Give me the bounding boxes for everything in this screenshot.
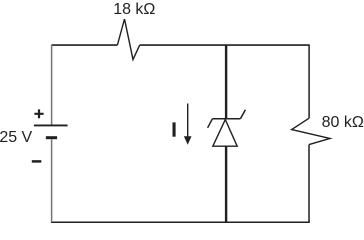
battery V1 positive plate (34, 124, 68, 126)
resistor R2 zigzag (292, 118, 330, 144)
wire bottom (51, 221, 310, 223)
wire top-right segment (140, 44, 309, 46)
zener right wing (240, 110, 245, 119)
minus sign (32, 160, 42, 163)
svg-text:18 kΩ: 18 kΩ (113, 1, 155, 18)
svg-text:80 kΩ: 80 kΩ (322, 114, 364, 131)
wire left lower (51, 139, 53, 222)
plus sign (34, 109, 43, 118)
battery V1 negative plate (46, 136, 57, 139)
current arrow shaft (187, 104, 189, 138)
wire middle branch lower (225, 146, 227, 222)
wire right lower (308, 145, 310, 223)
wire middle branch upper (225, 45, 227, 119)
resistor R1 zigzag (117, 19, 139, 60)
wire left upper (51, 44, 53, 125)
wire top-left segment (52, 44, 118, 46)
zener left wing (208, 119, 213, 128)
wire right upper (308, 44, 310, 118)
svg-text:25 V: 25 V (0, 129, 33, 146)
zener diode D1 cathode bar (212, 118, 240, 120)
current arrow head (184, 136, 192, 145)
zener anode triangle (213, 120, 237, 147)
label I (173, 122, 176, 136)
